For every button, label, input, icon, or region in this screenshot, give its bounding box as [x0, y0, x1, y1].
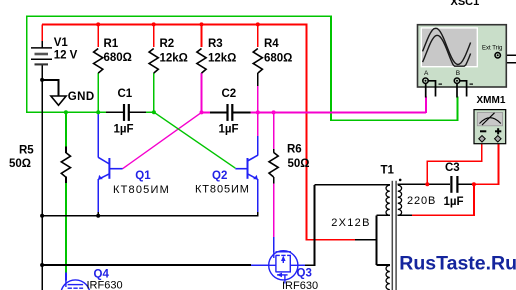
svg-text:1µF: 1µF	[114, 123, 134, 135]
svg-text:IRF630: IRF630	[282, 280, 318, 290]
svg-text:T1: T1	[381, 165, 395, 177]
svg-text:B: B	[456, 70, 460, 77]
svg-text:R4: R4	[264, 38, 279, 50]
svg-text:R1: R1	[104, 38, 119, 50]
svg-text:Ext Trig: Ext Trig	[482, 45, 502, 51]
svg-text:A: A	[424, 70, 429, 77]
svg-text:V1: V1	[54, 37, 69, 49]
svg-text:Q1: Q1	[135, 170, 151, 182]
svg-text:2X12B: 2X12B	[331, 217, 371, 229]
svg-text:C3: C3	[445, 162, 460, 174]
svg-text:1µF: 1µF	[444, 196, 464, 208]
svg-text:КТ805ИМ: КТ805ИМ	[195, 184, 250, 196]
svg-text:220B: 220B	[407, 195, 436, 207]
svg-text:IRF630: IRF630	[87, 280, 123, 290]
svg-text:680Ω: 680Ω	[264, 53, 292, 65]
svg-text:R2: R2	[160, 38, 175, 50]
svg-text:R5: R5	[19, 145, 34, 157]
svg-text:GND: GND	[68, 91, 95, 103]
svg-text:XMM1: XMM1	[477, 95, 506, 106]
svg-text:50Ω: 50Ω	[9, 158, 31, 170]
svg-text:R3: R3	[208, 38, 223, 50]
svg-text:Q3: Q3	[297, 267, 312, 279]
svg-text:50Ω: 50Ω	[288, 158, 310, 170]
svg-text:12kΩ: 12kΩ	[160, 53, 188, 65]
svg-text:12 V: 12 V	[54, 50, 78, 62]
svg-text:RusTaste.Ru: RusTaste.Ru	[399, 252, 516, 274]
svg-text:R6: R6	[287, 144, 302, 156]
svg-text:XSC1: XSC1	[451, 0, 480, 8]
svg-text:КТ805ИМ: КТ805ИМ	[113, 184, 170, 196]
svg-text:680Ω: 680Ω	[104, 52, 132, 64]
svg-text:C2: C2	[222, 88, 237, 100]
svg-text:1µF: 1µF	[219, 123, 239, 135]
svg-text:C1: C1	[118, 88, 133, 100]
svg-text:12kΩ: 12kΩ	[208, 53, 236, 65]
svg-text:Q2: Q2	[212, 170, 227, 182]
